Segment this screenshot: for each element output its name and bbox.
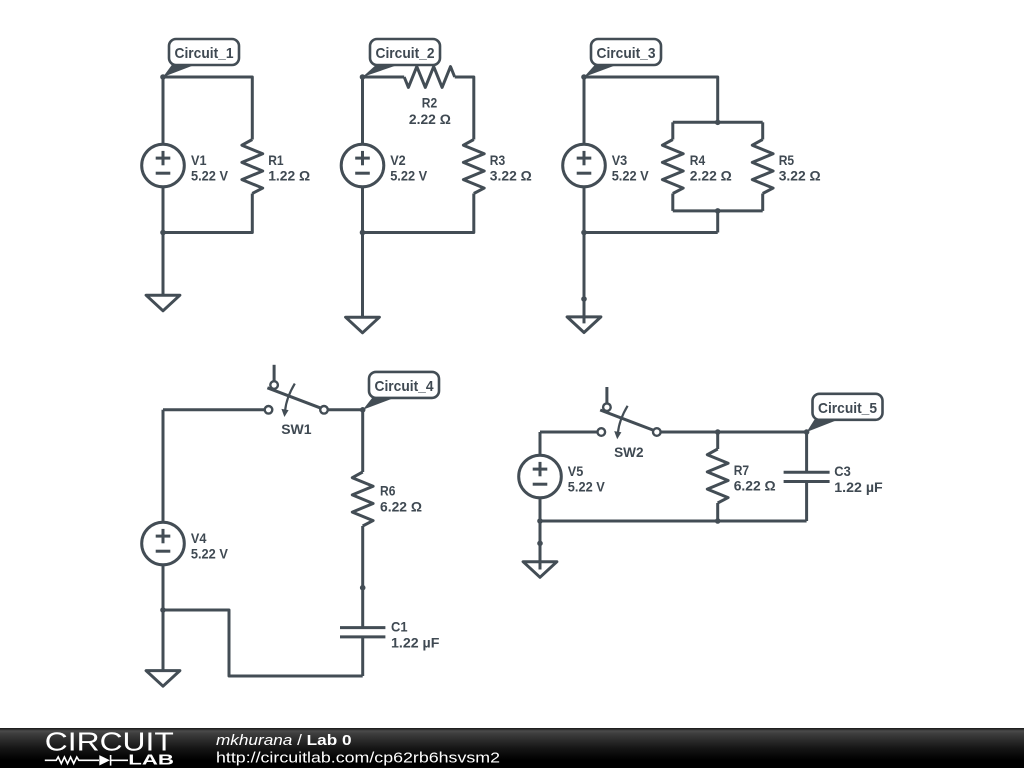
svg-text:SW1: SW1 bbox=[281, 421, 312, 437]
svg-text:V4: V4 bbox=[191, 530, 207, 546]
svg-text:Circuit_1: Circuit_1 bbox=[175, 45, 234, 62]
svg-text:R1: R1 bbox=[268, 152, 284, 168]
svg-text:C1: C1 bbox=[391, 619, 408, 635]
svg-text:V2: V2 bbox=[390, 152, 406, 168]
svg-text:Circuit_5: Circuit_5 bbox=[818, 400, 877, 417]
svg-text:3.22 Ω: 3.22 Ω bbox=[490, 168, 532, 184]
svg-text:Circuit_4: Circuit_4 bbox=[375, 378, 435, 395]
svg-text:R2: R2 bbox=[422, 95, 438, 111]
svg-text:6.22 Ω: 6.22 Ω bbox=[734, 478, 776, 494]
svg-text:5.22 V: 5.22 V bbox=[191, 546, 229, 562]
svg-text:SW2: SW2 bbox=[614, 444, 644, 460]
svg-text:5.22 V: 5.22 V bbox=[612, 168, 650, 184]
svg-text:1.22 µF: 1.22 µF bbox=[391, 634, 440, 650]
svg-text:2.22 Ω: 2.22 Ω bbox=[409, 111, 451, 127]
svg-text:Circuit_2: Circuit_2 bbox=[376, 45, 435, 62]
svg-text:5.22 V: 5.22 V bbox=[390, 168, 428, 184]
svg-text:V5: V5 bbox=[568, 463, 584, 479]
svg-text:1.22 Ω: 1.22 Ω bbox=[268, 168, 310, 184]
svg-text:3.22 Ω: 3.22 Ω bbox=[779, 168, 821, 184]
svg-text:V3: V3 bbox=[612, 152, 628, 168]
svg-text:LAB: LAB bbox=[128, 753, 174, 769]
svg-text:R5: R5 bbox=[779, 152, 795, 168]
svg-text:http://circuitlab.com/cp62rb6h: http://circuitlab.com/cp62rb6hsvsm2 bbox=[216, 750, 500, 767]
svg-text:C3: C3 bbox=[834, 463, 851, 479]
svg-text:6.22 Ω: 6.22 Ω bbox=[380, 498, 422, 514]
svg-text:R7: R7 bbox=[734, 462, 750, 478]
svg-text:1.22 µF: 1.22 µF bbox=[834, 479, 883, 495]
svg-text:R3: R3 bbox=[490, 152, 506, 168]
svg-text:R4: R4 bbox=[690, 152, 706, 168]
svg-text:2.22 Ω: 2.22 Ω bbox=[690, 168, 732, 184]
svg-text:V1: V1 bbox=[191, 152, 207, 168]
svg-text:5.22 V: 5.22 V bbox=[568, 479, 606, 495]
svg-text:R6: R6 bbox=[380, 483, 396, 499]
svg-text:mkhurana / Lab 0: mkhurana / Lab 0 bbox=[216, 733, 352, 749]
svg-text:Circuit_3: Circuit_3 bbox=[597, 45, 656, 62]
svg-text:5.22 V: 5.22 V bbox=[191, 168, 229, 184]
